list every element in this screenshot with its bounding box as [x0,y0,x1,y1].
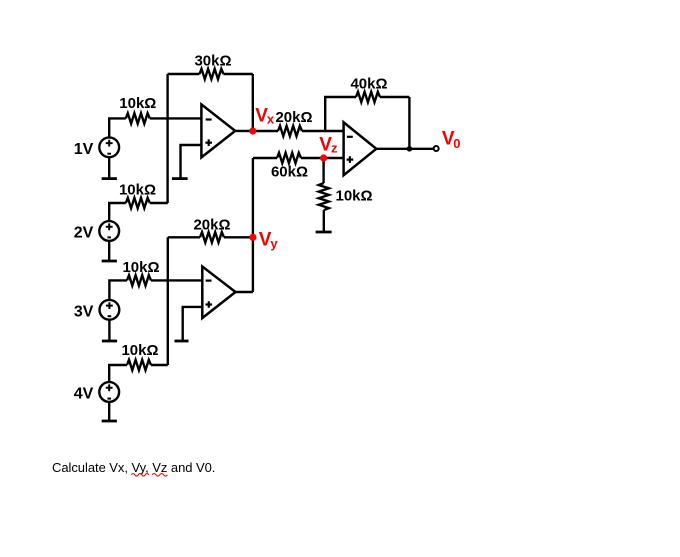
svg-text:Calculate Vx, Vy, Vz and V0.: Calculate Vx, Vy, Vz and V0. [52,460,215,475]
svg-text:2V: 2V [74,225,94,242]
svg-text:20kΩ: 20kΩ [193,216,230,233]
svg-text:z: z [331,141,338,156]
svg-text:10kΩ: 10kΩ [121,342,158,359]
svg-text:10kΩ: 10kΩ [119,182,156,199]
svg-text:4V: 4V [74,386,94,403]
svg-text:y: y [270,236,278,251]
svg-text:x: x [267,111,275,126]
svg-text:10kΩ: 10kΩ [336,188,373,205]
svg-text:3V: 3V [74,304,94,321]
svg-text:60kΩ: 60kΩ [271,164,308,181]
svg-text:10kΩ: 10kΩ [122,259,159,276]
svg-text:0: 0 [453,136,460,151]
svg-text:40kΩ: 40kΩ [350,76,387,93]
svg-text:20kΩ: 20kΩ [275,109,312,126]
svg-text:10kΩ: 10kΩ [119,95,156,112]
svg-text:1V: 1V [74,141,94,158]
svg-text:30kΩ: 30kΩ [194,53,231,70]
